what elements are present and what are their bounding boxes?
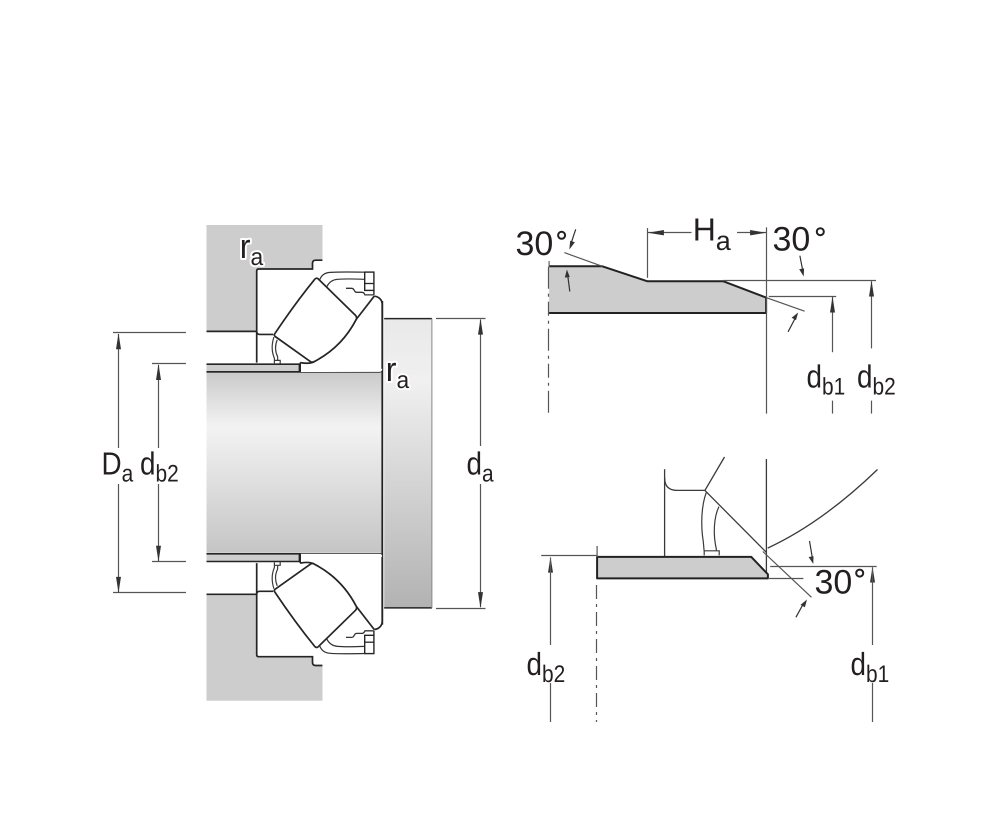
svg-text:Da: Da [102,446,134,488]
svg-text:db2: db2 [140,446,179,488]
svg-text:db1: db1 [851,646,890,688]
svg-text:30: 30 [815,563,853,601]
svg-text:db2: db2 [527,646,566,688]
svg-text:db2: db2 [857,359,896,401]
svg-text:da: da [467,446,495,488]
svg-text:30: 30 [516,225,554,263]
svg-text:Ha: Ha [693,211,732,256]
svg-text:db1: db1 [807,359,846,401]
svg-text:30: 30 [773,220,811,258]
